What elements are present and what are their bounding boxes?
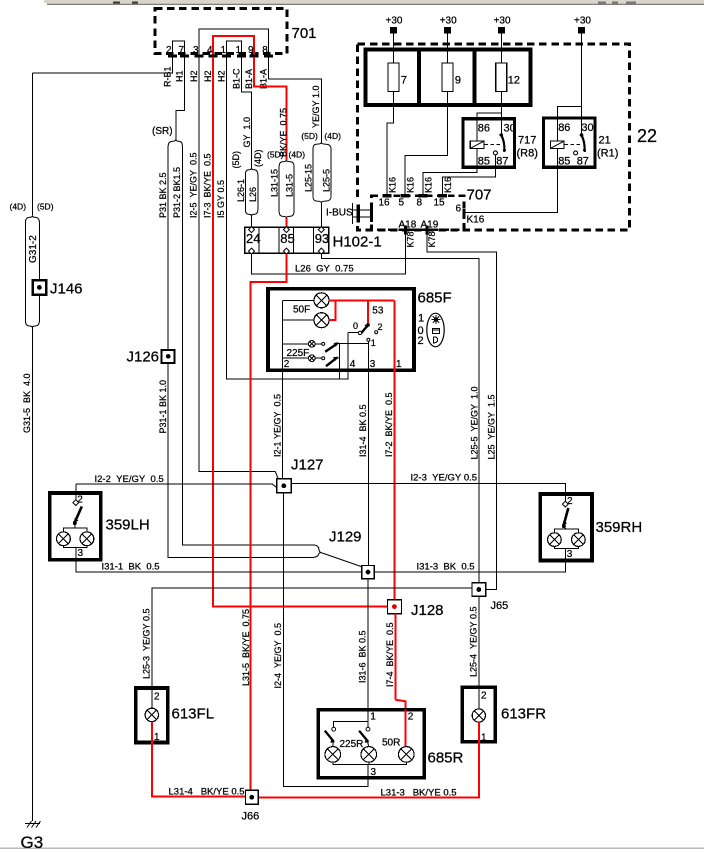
wire relay717 85 to 707 pin8	[423, 167, 477, 195]
L26 connector pair bracket top	[245, 168, 257, 174]
svg-text:L25 YE/GY 1.5: L25 YE/GY 1.5	[487, 394, 497, 459]
svg-text:L25-4 YE/GY 0.5: L25-4 YE/GY 0.5	[469, 606, 479, 677]
svg-text:(SR): (SR)	[152, 126, 173, 137]
svg-text:J129: J129	[329, 529, 362, 546]
svg-text:G31-5 BK 4.0: G31-5 BK 4.0	[22, 373, 32, 433]
701 pin ticks	[168, 55, 273, 58]
svg-text:22: 22	[637, 126, 657, 146]
svg-text:L31-4 BK/YE 0.5: L31-4 BK/YE 0.5	[169, 787, 245, 798]
707 pin 6 tick right edge	[456, 204, 485, 226]
wire L26-1	[244, 174, 246, 210]
svg-text:J66: J66	[242, 811, 260, 823]
svg-text:I7-2 BK/YE 0.5: I7-2 BK/YE 0.5	[384, 392, 394, 457]
svg-text:K78: K78	[406, 231, 416, 247]
svg-text:L26-1: L26-1	[236, 179, 246, 202]
K16 labels on 707 pins	[387, 177, 453, 193]
svg-text:4: 4	[207, 45, 213, 56]
svg-text:L31-3 BK/YE 0.5: L31-3 BK/YE 0.5	[381, 788, 457, 799]
rotary switch contacts 0 1 2	[353, 321, 383, 348]
light switch 685F	[268, 289, 452, 371]
svg-text:2: 2	[408, 712, 414, 723]
branch (6D) with J146	[38, 222, 40, 321]
left ground rail upper	[31, 73, 33, 216]
wire pin7 down with jog	[176, 57, 185, 139]
fog lamp 613FL	[136, 688, 214, 743]
svg-text:J126: J126	[127, 349, 160, 366]
junction J129	[329, 529, 374, 579]
svg-text:I7-4 BK/YE 0.5: I7-4 BK/YE 0.5	[385, 622, 395, 687]
svg-text:(4D): (4D)	[289, 150, 306, 160]
wire L25-15	[312, 149, 314, 197]
wire I7-4 BK/YE 0.5 (J128 red to 685R pin2)	[394, 614, 396, 700]
svg-text:I2-4 YE/GY 0.5: I2-4 YE/GY 0.5	[273, 623, 283, 689]
svg-text:P31 BK 2.5: P31 BK 2.5	[158, 172, 168, 218]
L31 pair bracket bottom	[279, 212, 294, 218]
fuse 7	[388, 50, 407, 105]
left ground rail lower	[31, 328, 33, 821]
701 internal bracket pins 4-9 (red)	[213, 36, 254, 55]
svg-text:B1-A: B1-A	[244, 69, 254, 89]
wire I2-2 YE/GY 0.5 (359LH to J127)	[76, 483, 272, 485]
svg-text:3: 3	[78, 548, 84, 559]
junction J127	[277, 457, 324, 493]
svg-text:I31-4 BK 0.5: I31-4 BK 0.5	[358, 404, 368, 457]
svg-text:53: 53	[372, 306, 384, 317]
svg-text:1: 1	[236, 45, 242, 56]
wire pin2 to left rail	[32, 57, 172, 73]
connector split bracket bottom left	[25, 321, 39, 327]
svg-text:+30: +30	[574, 16, 591, 27]
svg-text:707: 707	[467, 187, 492, 204]
junction J126	[127, 349, 175, 366]
svg-text:8: 8	[262, 45, 268, 56]
wire L25-5 YE/GY 1.0 (pin93 to J65)	[321, 254, 479, 583]
svg-text:L26: L26	[248, 187, 258, 202]
wire L31-5 red (pin85 down to J66)	[251, 254, 287, 790]
701 pin numbers	[166, 45, 268, 56]
701 internal bracket pins 3-8	[199, 29, 268, 55]
wire L31-15	[278, 166, 280, 212]
svg-text:3: 3	[567, 549, 573, 560]
svg-text:K16: K16	[467, 215, 485, 226]
svg-text:+30: +30	[494, 16, 511, 27]
svg-text:K16: K16	[443, 177, 453, 193]
svg-text:717: 717	[518, 135, 536, 147]
svg-text:30: 30	[504, 123, 516, 135]
wire L25-4 YE/GY 0.5 (J65 to 613FR)	[478, 596, 480, 687]
battery feed +30 no.3	[494, 16, 511, 50]
svg-text:I31-6 BK 0.5: I31-6 BK 0.5	[358, 630, 368, 683]
red wire 613FL pin1 to J66	[152, 722, 246, 797]
svg-text:2: 2	[418, 335, 424, 347]
fuse/relay unit 22 (dashed box)	[358, 44, 657, 230]
wire pin9 red BK/YE 0.75	[254, 57, 286, 160]
685F internal links to pins 3 and 4	[337, 341, 368, 343]
svg-text:93: 93	[315, 231, 329, 246]
svg-text:K16: K16	[423, 177, 433, 193]
switch position legend	[418, 313, 445, 348]
wire P31-2 BK1.5	[182, 146, 313, 545]
battery feed +30 no.1	[386, 16, 403, 50]
L26 pair bracket bottom	[245, 210, 257, 216]
svg-text:(4D): (4D)	[10, 202, 27, 212]
svg-text:L26 GY 0.75: L26 GY 0.75	[295, 264, 354, 275]
A19 connector tick	[421, 220, 439, 248]
svg-text:85: 85	[558, 156, 570, 168]
svg-text:L25-15: L25-15	[303, 164, 313, 192]
L25 pair bracket top	[313, 143, 331, 149]
battery feed +30 no.2	[440, 16, 457, 50]
svg-text:359RH: 359RH	[596, 519, 643, 536]
svg-text:H2: H2	[203, 70, 213, 82]
wire A19 to J65 right (L25 YE/GY 1.5)	[427, 235, 496, 590]
svg-text:R-B1: R-B1	[163, 66, 173, 87]
svg-text:685R: 685R	[428, 750, 464, 767]
lamp 50F upper	[283, 293, 329, 308]
connector H102-1	[245, 227, 382, 253]
reversing/fog rear unit 685R	[318, 710, 463, 778]
svg-text:I31-1 BK 0.5: I31-1 BK 0.5	[102, 562, 160, 573]
svg-text:I2-3 YE/GY 0.5: I2-3 YE/GY 0.5	[411, 473, 478, 484]
svg-text:2: 2	[166, 45, 172, 56]
svg-text:K16: K16	[405, 177, 415, 193]
svg-text:0: 0	[353, 321, 358, 331]
red wire 613FR pin1 to J66	[258, 722, 479, 798]
connector 707 (dashed box)	[372, 187, 492, 230]
svg-text:L25-5: L25-5	[321, 169, 331, 192]
svg-text:(4D): (4D)	[253, 149, 263, 167]
wire I31-1 BK 0.5 (359LH pin3 to J129)	[76, 560, 362, 572]
svg-text:H2: H2	[189, 70, 199, 82]
svg-text:P31-2 BK1.5: P31-2 BK1.5	[172, 167, 182, 218]
svg-text:2: 2	[284, 359, 290, 370]
wire P31 BK 2.5	[167, 146, 169, 350]
svg-text:3: 3	[371, 767, 377, 778]
svg-text:A18: A18	[399, 220, 417, 231]
svg-text:I7-3 BK/YE 0.5: I7-3 BK/YE 0.5	[203, 153, 213, 218]
svg-text:H102-1: H102-1	[333, 234, 382, 251]
svg-text:L25-3 YE/GY 0.5: L25-3 YE/GY 0.5	[142, 608, 152, 679]
svg-text:7: 7	[179, 45, 185, 56]
svg-text:2: 2	[481, 691, 487, 702]
svg-text:(R1): (R1)	[597, 148, 618, 160]
svg-text:16: 16	[379, 198, 391, 209]
svg-text:I2-2 YE/GY 0.5: I2-2 YE/GY 0.5	[95, 474, 164, 485]
svg-text:4: 4	[350, 359, 356, 370]
junction J66	[242, 790, 260, 822]
wire I2-5 YE/GY 0.5 (pin3 to J127)	[199, 57, 275, 472]
svg-text:86: 86	[478, 123, 490, 135]
fuse box	[365, 50, 530, 105]
wire relay21 85 to 707 pin6	[465, 167, 558, 212]
svg-text:86: 86	[558, 122, 570, 134]
L31 pair bracket top	[279, 160, 294, 166]
wire pin1b GY 1.0	[242, 57, 252, 168]
svg-text:50F: 50F	[293, 305, 310, 316]
svg-text:1: 1	[221, 45, 227, 56]
svg-text:(4D): (4D)	[324, 131, 341, 141]
svg-text:1: 1	[154, 732, 160, 743]
707 pin numbers	[379, 198, 446, 209]
svg-text:B1-C: B1-C	[232, 68, 242, 89]
relay 717 (R8)	[463, 119, 538, 168]
svg-text:(5D): (5D)	[267, 150, 284, 160]
rear lamp unit 359RH	[540, 494, 642, 561]
svg-text:(5D): (5D)	[231, 151, 241, 169]
svg-text:8: 8	[417, 198, 423, 209]
fuse 9	[442, 50, 461, 105]
wire fuse9 to 707 pin5	[405, 105, 448, 196]
svg-text:YE/GY 1.0: YE/GY 1.0	[311, 85, 321, 128]
359LH pin2 wire up	[75, 484, 77, 500]
svg-text:I2-5 YE/GY 0.5: I2-5 YE/GY 0.5	[189, 152, 199, 218]
footer line	[0, 848, 704, 849]
svg-text:I31-3 BK 0.5: I31-3 BK 0.5	[417, 562, 475, 573]
svg-text:15: 15	[434, 198, 446, 209]
svg-text:P31-1 BK 1.0: P31-1 BK 1.0	[158, 380, 168, 434]
svg-text:+30: +30	[386, 16, 403, 27]
rear lamp unit 359LH	[50, 493, 150, 560]
branch (4D)	[24, 222, 26, 321]
wire I5 GY 0.5 (pin1 to 685F pin4 run)	[227, 57, 349, 379]
wire L25-3 YE/GY 0.5 (J65 to 613FL)	[152, 588, 472, 688]
H102-1 pin diamonds	[249, 227, 325, 255]
svg-text:85: 85	[280, 231, 294, 246]
A18 connector tick	[399, 220, 417, 248]
svg-text:J128: J128	[411, 602, 444, 619]
svg-text:9: 9	[248, 45, 254, 56]
svg-text:3: 3	[370, 359, 376, 370]
control unit 701 (dashed box)	[155, 9, 317, 54]
svg-text:225F: 225F	[287, 348, 310, 359]
svg-text:1: 1	[396, 359, 402, 370]
svg-text:I-BUS: I-BUS	[326, 208, 353, 219]
wire I31-6 BK 0.5 (J129 to 685R pin1)	[367, 579, 369, 710]
svg-text:613FL: 613FL	[172, 706, 215, 723]
svg-text:G31-2: G31-2	[28, 235, 39, 263]
svg-text:359LH: 359LH	[106, 517, 150, 534]
lamp 50F lower	[283, 305, 329, 328]
pin4 path (contact 0 branch)	[348, 332, 358, 334]
svg-text:(5D): (5D)	[37, 202, 54, 212]
connector split bracket top left	[25, 216, 39, 222]
svg-text:K78: K78	[427, 231, 437, 247]
battery feed +30 no.4	[574, 16, 591, 118]
wire pin8 YE/GY 1.0	[268, 57, 321, 143]
wire I2-4 YE/GY 0.5 (J127 down to 685R pin3)	[284, 493, 368, 787]
svg-text:I2-1 YE/GY 0.5: I2-1 YE/GY 0.5	[272, 394, 282, 457]
svg-text:2: 2	[378, 322, 383, 332]
wire fuse7 to 707 pin16	[387, 105, 394, 196]
svg-text:J127: J127	[291, 457, 324, 474]
wire I31-3 BK 0.5 (359RH pin3 to J129)	[374, 561, 565, 573]
svg-text:701: 701	[292, 25, 317, 42]
svg-text:30: 30	[581, 122, 593, 134]
685F left bus	[282, 300, 284, 370]
701 internal bracket pins 1-1	[227, 41, 242, 55]
fog lamp 613FR	[462, 687, 546, 743]
svg-text:H1: H1	[175, 70, 185, 82]
red feed from lamps to switch and pin1	[329, 300, 394, 601]
svg-text:225R: 225R	[340, 739, 364, 750]
701 internal bracket pins 2-7	[173, 41, 185, 55]
svg-text:87: 87	[577, 156, 589, 168]
relay 21 (R1)	[544, 107, 619, 168]
svg-text:685F: 685F	[418, 290, 452, 307]
svg-text:L25-5 YE/GY 1.0: L25-5 YE/GY 1.0	[469, 386, 479, 459]
wire L31-5	[293, 166, 295, 212]
svg-text:7: 7	[401, 75, 407, 87]
junction J65	[472, 583, 508, 612]
wire L26 GY 0.75 (pin24 to A18)	[252, 234, 406, 274]
svg-text:50R: 50R	[382, 738, 400, 749]
svg-text:2: 2	[154, 692, 160, 703]
svg-text:H2: H2	[217, 70, 227, 82]
svg-text:9: 9	[455, 75, 461, 87]
svg-text:1: 1	[481, 733, 487, 744]
svg-text:1: 1	[370, 712, 376, 723]
svg-text:1: 1	[371, 338, 376, 348]
svg-text:K16: K16	[387, 177, 397, 193]
wire P31-1 BK 1.0	[168, 363, 314, 557]
wire I2-3 YE/GY 0.5 (J127 to 359RH)	[291, 484, 565, 503]
svg-text:24: 24	[246, 231, 260, 246]
merge brace into J129	[314, 545, 321, 557]
wire I7-3 BK/YE 0.5 (red, pin4 to J128)	[213, 57, 388, 607]
svg-text:5: 5	[399, 198, 405, 209]
junction J128 (red)	[388, 600, 444, 619]
I-BUS connection symbol	[326, 198, 372, 224]
svg-text:6: 6	[456, 204, 462, 215]
svg-text:3: 3	[193, 45, 199, 56]
wire relay717 87 to 707 pin15	[442, 167, 495, 195]
wire L25-5	[330, 149, 332, 197]
wire fuse12 to relay 30 and 86	[500, 105, 502, 119]
fuse 12	[496, 50, 520, 105]
701 pin net labels (rotated)	[163, 66, 269, 89]
svg-text:1: 1	[418, 313, 424, 325]
svg-text:L31-5 BK/YE 0.75: L31-5 BK/YE 0.75	[241, 609, 251, 686]
svg-text:12: 12	[508, 75, 520, 87]
svg-text:L31-5: L31-5	[284, 174, 294, 197]
L25 pair bracket bottom	[313, 197, 331, 203]
window chrome sliver top	[44, 0, 704, 5]
707 pin ticks top	[382, 194, 447, 197]
svg-text:A19: A19	[421, 220, 439, 231]
svg-text:(5D): (5D)	[301, 131, 318, 141]
svg-text:J146: J146	[50, 281, 83, 298]
svg-text:I5 GY 0.5: I5 GY 0.5	[216, 180, 226, 218]
685F pin numbers	[284, 359, 402, 370]
svg-text:613FR: 613FR	[501, 706, 546, 723]
ground G3	[21, 821, 44, 852]
svg-text:87: 87	[496, 156, 508, 168]
svg-text:85: 85	[478, 156, 490, 168]
svg-text:(R8): (R8)	[517, 148, 538, 160]
svg-text:+30: +30	[440, 16, 457, 27]
small lamp 225F lower	[283, 348, 339, 366]
svg-text:G3: G3	[21, 833, 44, 852]
svg-text:21: 21	[599, 135, 611, 147]
svg-text:GY 1.0: GY 1.0	[242, 117, 252, 148]
svg-text:L31-15: L31-15	[270, 169, 280, 197]
svg-text:J65: J65	[491, 600, 509, 612]
svg-text:2: 2	[567, 496, 573, 507]
junction J146	[33, 280, 83, 297]
small lamp 225F upper	[283, 341, 339, 352]
wire L26	[257, 174, 259, 210]
(SR) split brace	[168, 139, 182, 146]
